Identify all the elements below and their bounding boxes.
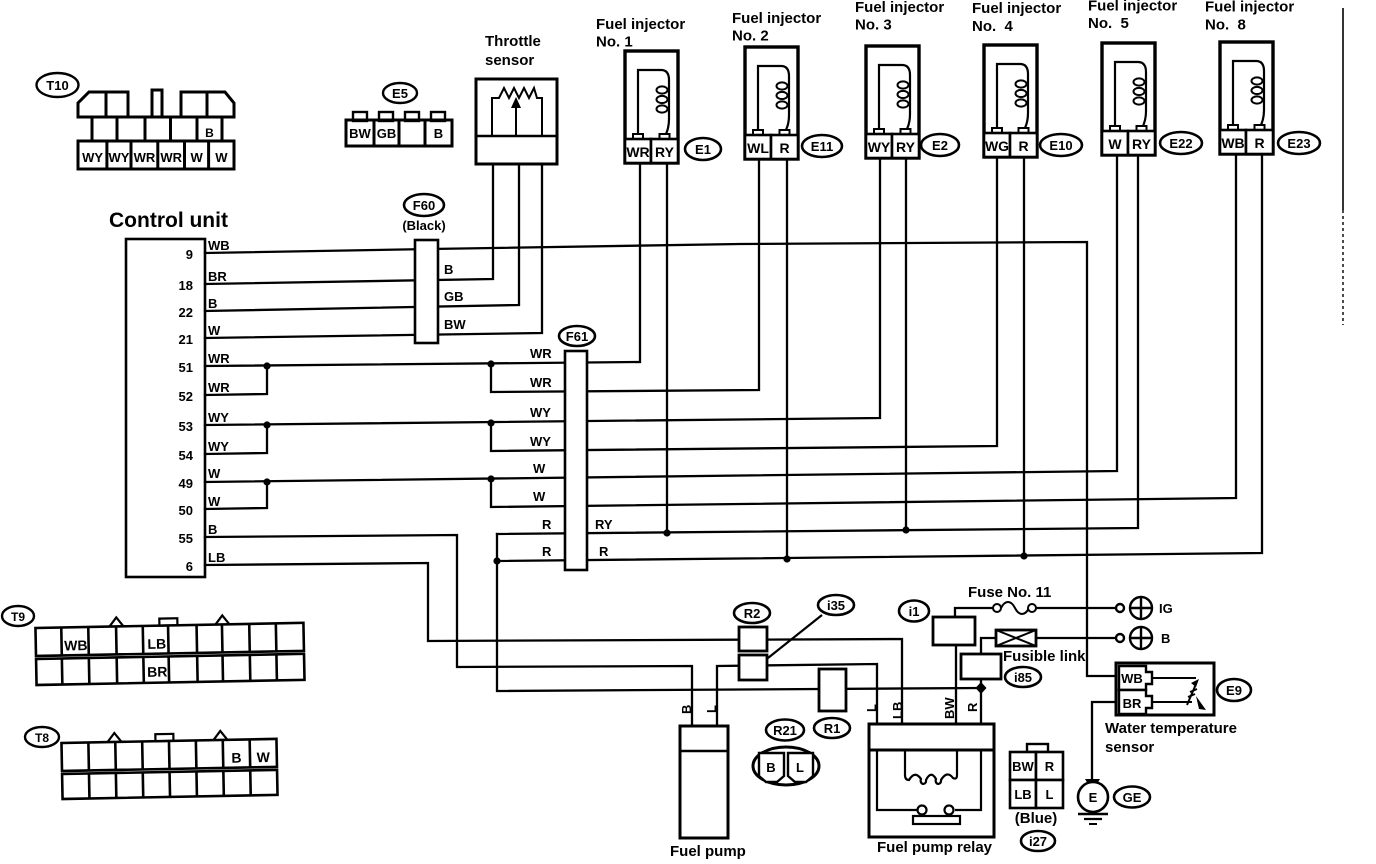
fuel injector No.3: [855, 0, 944, 158]
svg-text:E5: E5: [392, 86, 408, 101]
svg-text:E23: E23: [1287, 136, 1310, 151]
svg-text:WL: WL: [747, 140, 769, 156]
svg-text:sensor: sensor: [1105, 739, 1154, 756]
oval R2: [734, 603, 770, 623]
connector oval T9: [2, 606, 34, 626]
svg-text:(Blue): (Blue): [1015, 810, 1058, 827]
water temperature sensor: [1105, 663, 1237, 756]
svg-text:(Black): (Black): [402, 218, 445, 233]
svg-text:No. 5: No. 5: [1088, 15, 1129, 32]
svg-text:IG: IG: [1159, 601, 1173, 616]
svg-text:Fuel pump: Fuel pump: [670, 843, 746, 860]
svg-text:WY: WY: [530, 434, 551, 449]
svg-text:B: B: [434, 126, 443, 141]
F61 right side labels: [595, 517, 613, 559]
svg-text:BW: BW: [349, 126, 371, 141]
svg-text:E2: E2: [932, 138, 948, 153]
svg-text:T10: T10: [46, 78, 68, 93]
wire fuel pump L through R2 to relay L: [717, 664, 877, 726]
svg-text:R21: R21: [773, 723, 797, 738]
diamond junction at relay R: [976, 682, 987, 694]
wire pin50 W stub: [205, 482, 267, 509]
wire fusible link to B terminal: [1036, 637, 1117, 639]
throttle sensor: [476, 79, 557, 164]
svg-text:51: 51: [179, 360, 193, 375]
svg-text:BW: BW: [444, 317, 466, 332]
svg-text:No. 2: No. 2: [732, 28, 769, 45]
svg-text:22: 22: [179, 305, 193, 320]
svg-text:E10: E10: [1049, 138, 1072, 153]
svg-text:50: 50: [179, 503, 193, 518]
oval i35 with pointer: [768, 595, 854, 658]
svg-text:R: R: [965, 702, 980, 712]
svg-text:E9: E9: [1226, 683, 1242, 698]
svg-text:9: 9: [186, 247, 193, 262]
svg-text:WG: WG: [985, 138, 1009, 154]
svg-text:R: R: [599, 544, 609, 559]
svg-text:sensor: sensor: [485, 52, 534, 69]
svg-text:BR: BR: [208, 269, 227, 284]
wire fuse to IG terminal: [1035, 607, 1117, 609]
svg-text:GE: GE: [1123, 790, 1142, 805]
control unit: [126, 239, 205, 577]
svg-text:B: B: [231, 750, 241, 766]
svg-text:53: 53: [179, 419, 193, 434]
svg-text:49: 49: [179, 476, 193, 491]
svg-text:E22: E22: [1169, 136, 1192, 151]
connector oval E2: [921, 134, 959, 156]
connector oval E1: [685, 138, 721, 160]
svg-text:i85: i85: [1014, 670, 1032, 685]
svg-text:LB: LB: [1014, 787, 1031, 802]
svg-text:GB: GB: [377, 126, 397, 141]
svg-text:RY: RY: [595, 517, 613, 532]
control unit pin numbers: [179, 247, 194, 574]
svg-text:R2: R2: [744, 606, 761, 621]
svg-text:LB: LB: [208, 550, 225, 565]
svg-text:WR: WR: [530, 346, 552, 361]
svg-text:R: R: [1045, 759, 1055, 774]
wire pin18 B to throttle sensor left: [205, 164, 493, 284]
svg-text:B: B: [1161, 631, 1170, 646]
junction R riser: [493, 557, 500, 564]
wire injector2 R drop: [786, 160, 788, 559]
svg-text:WB: WB: [1121, 671, 1143, 686]
junction RY injector1: [663, 529, 670, 536]
svg-text:WB: WB: [1221, 135, 1244, 151]
svg-text:R: R: [779, 140, 789, 156]
svg-text:Fuel injector: Fuel injector: [1088, 0, 1177, 15]
svg-text:W: W: [190, 150, 203, 165]
svg-text:WY: WY: [868, 139, 891, 155]
svg-text:W: W: [208, 466, 221, 481]
svg-text:T9: T9: [11, 610, 25, 624]
svg-text:GB: GB: [444, 289, 464, 304]
inline connector F60: [402, 194, 445, 343]
connector oval E23: [1278, 132, 1320, 154]
page edge line: [1342, 8, 1344, 210]
oval GE: [1114, 787, 1150, 808]
svg-text:Fusible link: Fusible link: [1003, 648, 1086, 665]
wire pin53 WY to injector3 WY: [205, 159, 880, 425]
svg-text:Fuel injector: Fuel injector: [596, 16, 685, 33]
svg-text:WY: WY: [109, 150, 130, 165]
svg-text:R: R: [1254, 135, 1264, 151]
wire pin21 BW to throttle sensor right: [205, 164, 542, 338]
svg-text:L: L: [704, 705, 719, 713]
junction pins 49-50: [263, 478, 270, 485]
svg-text:21: 21: [179, 332, 193, 347]
oval E9: [1217, 679, 1251, 701]
svg-text:WY: WY: [208, 410, 229, 425]
ground E circle: [1078, 779, 1108, 824]
svg-text:i1: i1: [909, 604, 920, 619]
svg-text:F60: F60: [413, 198, 435, 213]
svg-text:WY: WY: [208, 439, 229, 454]
svg-text:W: W: [533, 489, 546, 504]
junction pins 51-52: [263, 362, 270, 369]
wire pin49 W to injector5 W: [205, 157, 1117, 482]
fuel injector No.4: [972, 0, 1061, 157]
svg-text:18: 18: [179, 278, 193, 293]
F60 right side labels: [444, 262, 466, 332]
svg-text:W: W: [208, 323, 221, 338]
svg-text:E: E: [1089, 790, 1098, 805]
svg-text:No. 1: No. 1: [596, 34, 633, 51]
wire injector1 RY drop: [666, 163, 668, 533]
wire pin22 GB to throttle sensor wiper: [205, 164, 519, 311]
svg-text:i27: i27: [1029, 834, 1047, 849]
oval R1: [814, 718, 850, 738]
svg-text:LB: LB: [890, 702, 905, 719]
junction pins 53-54: [263, 421, 270, 428]
svg-text:W: W: [215, 150, 228, 165]
svg-text:R: R: [542, 517, 552, 532]
svg-text:B: B: [208, 522, 217, 537]
svg-text:WR: WR: [208, 380, 230, 395]
svg-text:No. 8: No. 8: [1205, 17, 1246, 34]
connector oval E11: [802, 135, 842, 157]
svg-text:Fuel pump relay: Fuel pump relay: [877, 839, 993, 856]
svg-text:BR: BR: [147, 663, 168, 679]
svg-text:W: W: [208, 494, 221, 509]
svg-text:No. 4: No. 4: [972, 18, 1013, 35]
svg-text:B: B: [766, 760, 775, 775]
svg-text:Throttle: Throttle: [485, 33, 541, 50]
fuel pump relay: [864, 697, 994, 856]
wire i1 box to fuse: [955, 608, 994, 617]
svg-text:WB: WB: [208, 238, 230, 253]
i85 box: [961, 654, 1001, 679]
connector T8: [61, 730, 277, 799]
connector R1: [819, 669, 846, 711]
svg-text:W: W: [257, 749, 271, 765]
svg-text:55: 55: [179, 531, 193, 546]
wire branch WY to injector4 WG: [491, 158, 997, 451]
wire water temp BR to ground E: [1092, 702, 1119, 779]
oval i27: [1021, 831, 1055, 851]
wire pin6 LB through R2 to relay LB: [205, 563, 902, 724]
svg-text:RY: RY: [896, 139, 916, 155]
svg-text:F61: F61: [566, 329, 588, 344]
inline connector F61: [559, 326, 595, 570]
svg-text:E11: E11: [811, 139, 833, 154]
fuel injector No.2: [732, 10, 821, 159]
wire R net to injector8 R: [497, 156, 1262, 561]
fuel pump: [670, 705, 746, 860]
svg-text:BR: BR: [1123, 696, 1142, 711]
wire diamond junction to i85 box: [980, 679, 982, 688]
svg-text:L: L: [1046, 787, 1054, 802]
connector E5: [346, 83, 452, 146]
svg-text:WR: WR: [208, 351, 230, 366]
oval i1: [899, 601, 929, 622]
fuel injector No.8: [1205, 0, 1294, 154]
svg-text:54: 54: [179, 448, 194, 463]
wire i85 box to fusible link: [981, 638, 996, 654]
svg-text:WR: WR: [134, 150, 156, 165]
fuel injector No.5: [1088, 0, 1177, 155]
wire R riser from relay R junction: [497, 534, 981, 691]
oval R21: [766, 720, 804, 741]
connector oval T8: [25, 727, 59, 747]
wire branch W to injector8 WB: [491, 156, 1236, 507]
svg-text:W: W: [1108, 136, 1122, 152]
svg-text:R: R: [542, 544, 552, 559]
svg-text:No. 3: No. 3: [855, 17, 892, 34]
junction WY split: [487, 419, 494, 426]
wire branch WR to injector2 WL: [491, 160, 759, 392]
svg-text:R: R: [1018, 138, 1028, 154]
svg-text:BW: BW: [942, 697, 957, 719]
svg-text:R1: R1: [824, 721, 841, 736]
wire injector4 R drop: [1023, 158, 1025, 556]
wire pin55 B to fuel pump B: [205, 535, 692, 726]
svg-text:T8: T8: [35, 731, 49, 745]
wire pin52 WR stub: [205, 366, 267, 395]
svg-text:Water temperature: Water temperature: [1105, 720, 1237, 737]
IG terminal: [1116, 597, 1152, 619]
svg-text:L: L: [796, 760, 804, 775]
svg-text:Control unit: Control unit: [109, 209, 228, 232]
connector i27: [1010, 744, 1063, 827]
svg-text:WR: WR: [160, 150, 182, 165]
svg-text:WY: WY: [82, 150, 103, 165]
connector oval E22: [1160, 132, 1202, 154]
svg-text:BW: BW: [1012, 759, 1034, 774]
svg-text:Fuel injector: Fuel injector: [732, 10, 821, 27]
svg-text:Fuse No. 11: Fuse No. 11: [968, 584, 1051, 601]
wire relay BW to i1 box: [955, 645, 957, 724]
B terminal: [1116, 627, 1152, 649]
wire pin54 WY stub: [205, 425, 267, 454]
svg-text:WR: WR: [626, 144, 649, 160]
junction R injector2: [783, 555, 790, 562]
svg-text:WY: WY: [530, 405, 551, 420]
svg-text:E1: E1: [695, 142, 711, 157]
svg-text:6: 6: [186, 559, 193, 574]
wire RY net to injector5 RY: [497, 157, 1138, 534]
svg-text:B: B: [679, 705, 694, 714]
i1 box: [933, 617, 975, 645]
svg-text:RY: RY: [1132, 136, 1152, 152]
control unit wire colour labels: [208, 238, 230, 565]
junction R injector4: [1020, 552, 1027, 559]
svg-text:W: W: [533, 461, 546, 476]
junction WR split: [487, 360, 494, 367]
connector oval E10: [1040, 134, 1082, 156]
connector R2 lower square: [739, 655, 767, 680]
connector R21 face: [753, 747, 819, 785]
junction RY injector3: [902, 526, 909, 533]
wire diamond junction to relay R pin: [980, 688, 982, 724]
svg-text:B: B: [444, 262, 453, 277]
connector R2 upper square: [739, 627, 767, 651]
svg-text:L: L: [864, 704, 879, 712]
junction W split: [487, 475, 494, 482]
svg-text:LB: LB: [147, 636, 166, 652]
svg-text:Fuel injector: Fuel injector: [1205, 0, 1294, 16]
F61 left side labels: [530, 346, 552, 559]
wire pin51 WR to injector1 WR: [205, 163, 640, 366]
svg-text:WR: WR: [530, 375, 552, 390]
connector T9: [35, 614, 304, 685]
connector T10: [37, 73, 235, 169]
svg-text:52: 52: [179, 389, 193, 404]
fuel injector No.1: [596, 16, 685, 163]
svg-text:Fuel injector: Fuel injector: [855, 0, 944, 16]
wire injector3 RY drop: [905, 159, 907, 530]
svg-text:RY: RY: [655, 144, 675, 160]
svg-text:Fuel injector: Fuel injector: [972, 0, 1061, 17]
fusible link: [996, 630, 1086, 665]
fuse No.11: [993, 602, 1036, 614]
svg-text:B: B: [205, 126, 214, 140]
wire pin9 WB to water temp sensor: [205, 242, 1119, 676]
svg-text:i35: i35: [827, 598, 845, 613]
oval i85: [1005, 667, 1041, 687]
svg-text:B: B: [208, 296, 217, 311]
svg-text:WB: WB: [64, 637, 88, 653]
